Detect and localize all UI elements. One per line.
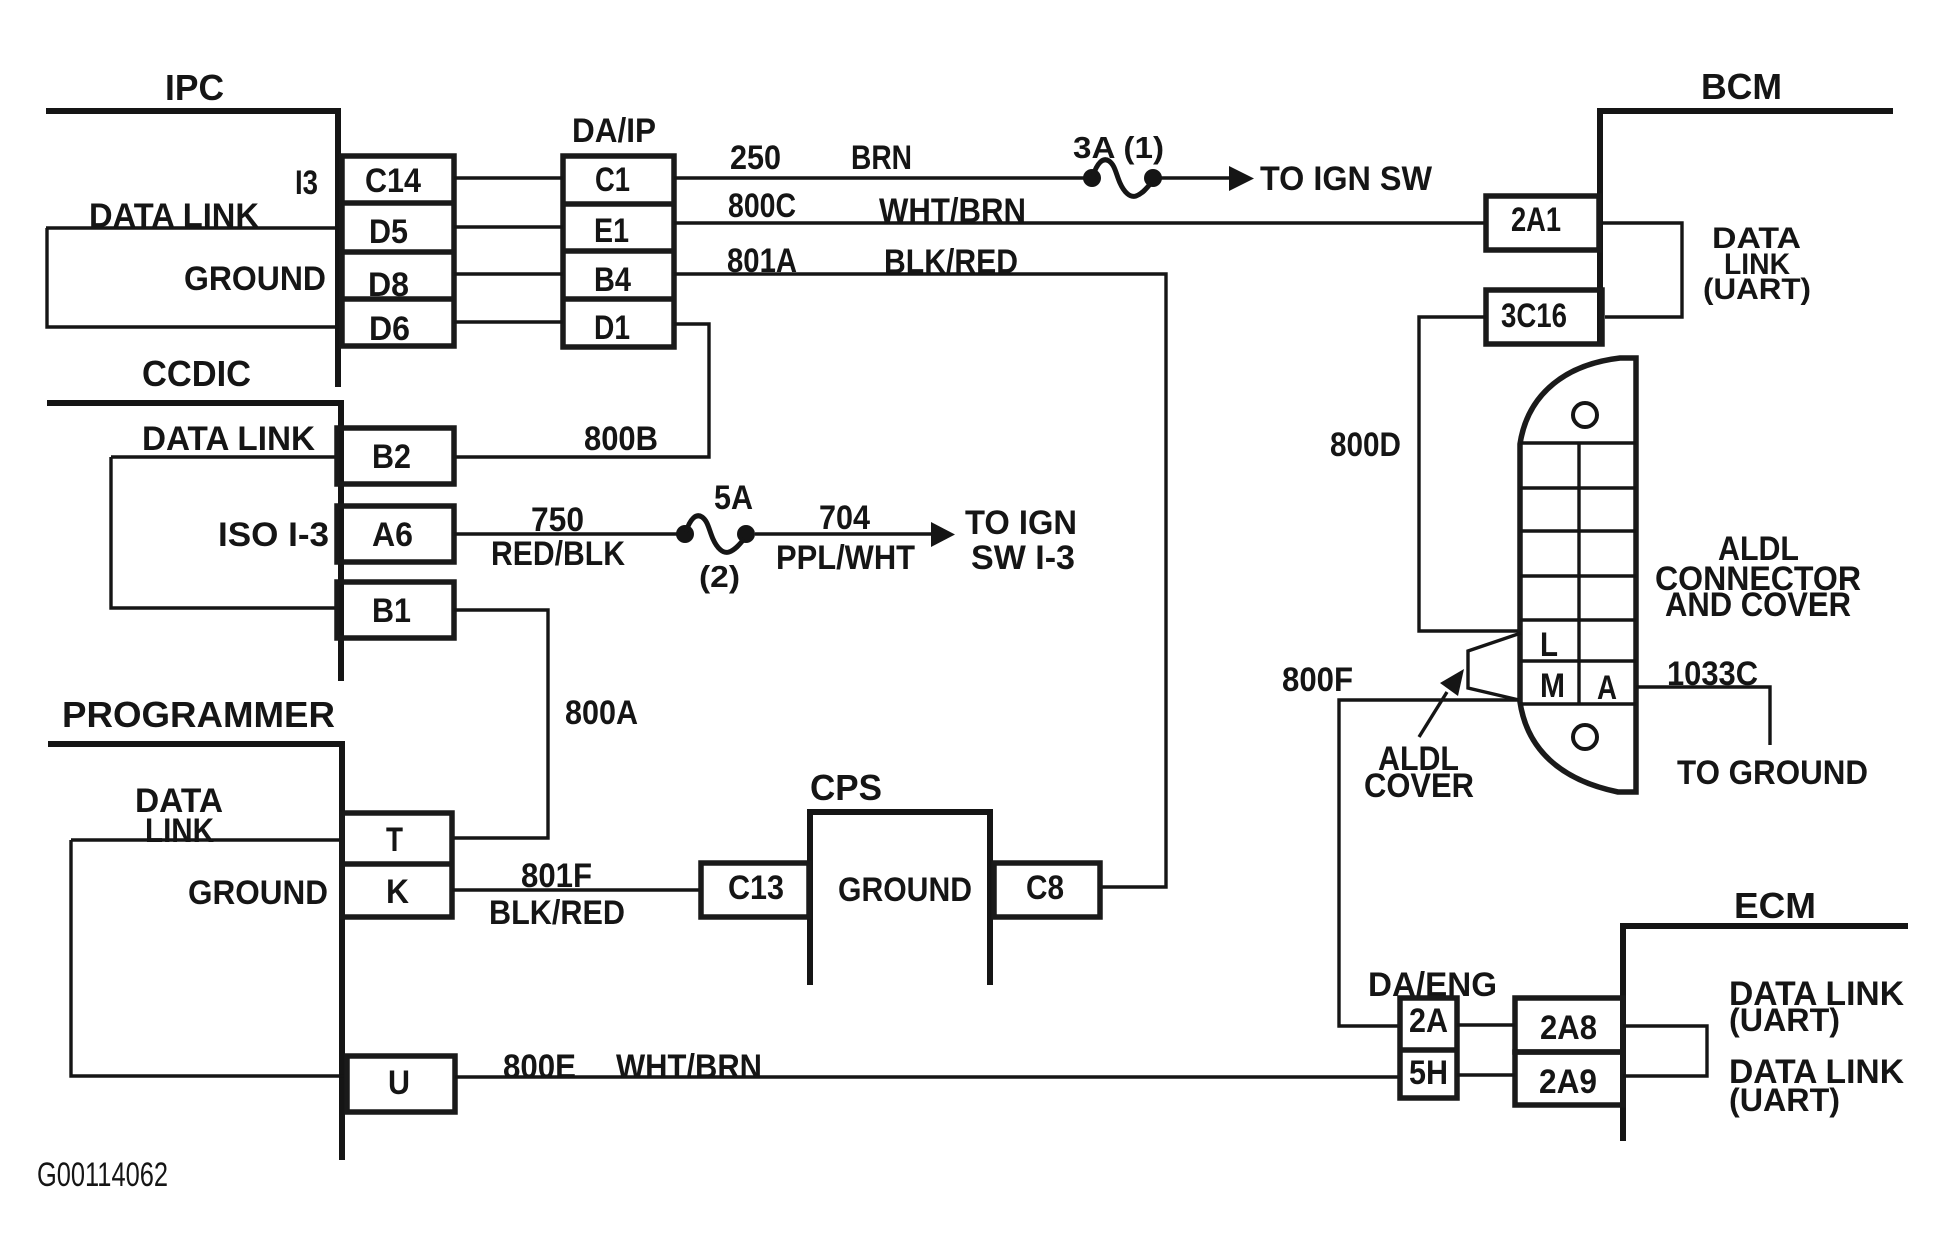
svg-text:801A: 801A bbox=[727, 242, 797, 280]
svg-text:800C: 800C bbox=[728, 187, 796, 225]
wire C14 to C1 bbox=[454, 176, 563, 179]
connector pin B2 bbox=[337, 428, 454, 484]
svg-text:250: 250 bbox=[730, 139, 781, 177]
svg-text:PPL/WHT: PPL/WHT bbox=[776, 539, 915, 577]
svg-text:C13: C13 bbox=[728, 869, 784, 907]
svg-text:801F: 801F bbox=[521, 857, 592, 895]
wire 800E WHT/BRN: U to 5H bbox=[455, 1075, 1400, 1078]
svg-text:5A: 5A bbox=[714, 479, 753, 517]
svg-text:DA/IP: DA/IP bbox=[572, 112, 656, 150]
wire ECM data-link bracket bbox=[1623, 1026, 1707, 1076]
label ALDL COVER with arrow bbox=[1419, 692, 1447, 737]
svg-text:(UART): (UART) bbox=[1729, 1002, 1840, 1038]
connector pins T K bbox=[342, 813, 452, 917]
svg-text:COVER: COVER bbox=[1364, 767, 1474, 805]
wire 2A to 2A8 bbox=[1457, 1023, 1515, 1026]
svg-text:D6: D6 bbox=[369, 310, 410, 348]
svg-text:TO IGN: TO IGN bbox=[965, 504, 1077, 542]
arrow TO IGN SW I-3 bbox=[931, 522, 955, 547]
svg-text:LINK: LINK bbox=[145, 812, 214, 850]
svg-text:C14: C14 bbox=[365, 162, 421, 200]
connector pin 3C16 bbox=[1486, 290, 1602, 344]
connector pin U bbox=[347, 1056, 455, 1112]
connector pin A6 bbox=[337, 506, 454, 562]
svg-text:704: 704 bbox=[819, 499, 870, 537]
module CPS frame bbox=[810, 812, 990, 985]
wire 250 BRN: C1 to fuse bbox=[674, 176, 1085, 179]
svg-text:3A (1): 3A (1) bbox=[1073, 130, 1164, 165]
connector DA/IP pins C1 E1 B4 D1 bbox=[563, 156, 674, 347]
svg-text:800A: 800A bbox=[565, 694, 638, 732]
ALDL mounting hole top bbox=[1573, 403, 1597, 427]
wire D5 to E1 bbox=[454, 225, 563, 228]
svg-text:CPS: CPS bbox=[810, 767, 882, 808]
svg-text:M: M bbox=[1540, 667, 1565, 705]
connector DA/ENG pins 2A 5H bbox=[1400, 998, 1457, 1098]
module IPC frame bbox=[46, 108, 338, 387]
connector pin 2A1 bbox=[1486, 196, 1599, 250]
wire 800D: 3C16 to ALDL L pin bbox=[1419, 317, 1519, 631]
svg-text:ECM: ECM bbox=[1734, 885, 1816, 926]
svg-text:IPC: IPC bbox=[165, 67, 224, 108]
wire D1 down to B2 (800B) bbox=[454, 324, 709, 457]
module PROGRAMMER frame bbox=[48, 741, 342, 1160]
svg-text:2A8: 2A8 bbox=[1540, 1009, 1597, 1047]
svg-text:PROGRAMMER: PROGRAMMER bbox=[62, 694, 335, 735]
svg-text:T: T bbox=[386, 821, 403, 859]
svg-text:AND COVER: AND COVER bbox=[1665, 586, 1851, 624]
svg-text:3C16: 3C16 bbox=[1501, 297, 1567, 335]
svg-text:B4: B4 bbox=[594, 261, 631, 299]
wire D8 to B4 bbox=[454, 272, 563, 275]
svg-text:TO IGN SW: TO IGN SW bbox=[1260, 160, 1433, 198]
svg-text:I3: I3 bbox=[295, 164, 318, 202]
svg-text:SW I-3: SW I-3 bbox=[971, 539, 1075, 577]
svg-text:K: K bbox=[386, 873, 409, 911]
svg-text:(UART): (UART) bbox=[1703, 273, 1811, 306]
svg-text:WHT/BRN: WHT/BRN bbox=[879, 192, 1026, 230]
module BCM frame bbox=[1598, 108, 1893, 344]
ALDL mounting hole bottom bbox=[1573, 725, 1597, 749]
svg-text:B1: B1 bbox=[372, 592, 411, 630]
svg-text:750: 750 bbox=[531, 501, 584, 539]
svg-text:D1: D1 bbox=[594, 309, 630, 347]
svg-text:WHT/BRN: WHT/BRN bbox=[616, 1048, 762, 1086]
wire BCM data-link bracket bbox=[1602, 223, 1682, 317]
svg-text:GROUND: GROUND bbox=[188, 874, 328, 912]
svg-text:L: L bbox=[1540, 626, 1558, 664]
svg-text:A: A bbox=[1597, 669, 1617, 707]
svg-text:1033C: 1033C bbox=[1667, 655, 1758, 693]
connector pin C13 bbox=[701, 863, 809, 917]
svg-text:(UART): (UART) bbox=[1729, 1082, 1840, 1118]
connector ALDL body bbox=[1520, 358, 1636, 792]
wire programmer data-link bracket to U bbox=[71, 840, 347, 1076]
svg-text:RED/BLK: RED/BLK bbox=[491, 535, 625, 573]
svg-text:2A9: 2A9 bbox=[1539, 1063, 1597, 1101]
wire 5H to 2A9 bbox=[1457, 1073, 1515, 1076]
svg-text:(2): (2) bbox=[699, 559, 740, 594]
wire IPC data-link bracket bbox=[46, 228, 342, 327]
wire 801A BLK/RED: B4 down to C8 bbox=[674, 274, 1166, 887]
svg-text:ISO I-3: ISO I-3 bbox=[218, 516, 329, 554]
svg-text:U: U bbox=[388, 1064, 410, 1102]
svg-text:5H: 5H bbox=[1409, 1054, 1448, 1092]
fuse 5A (2) bbox=[676, 516, 755, 553]
arrow to cover bbox=[1440, 669, 1464, 696]
wire B1 to T (800A) bbox=[452, 610, 548, 838]
svg-text:2A1: 2A1 bbox=[1511, 201, 1561, 239]
ALDL cover flap bbox=[1468, 633, 1521, 700]
svg-text:800B: 800B bbox=[584, 420, 658, 458]
svg-text:800F: 800F bbox=[1282, 661, 1353, 699]
svg-text:C8: C8 bbox=[1026, 869, 1064, 907]
svg-text:GROUND: GROUND bbox=[184, 260, 326, 298]
wire CCDIC bracket B2 to B1 bbox=[111, 457, 337, 608]
wire 1033C: A pin to ground bbox=[1636, 687, 1770, 745]
wire 800C WHT/BRN: E1 to 2A1 bbox=[674, 221, 1486, 224]
svg-text:E1: E1 bbox=[594, 212, 629, 250]
wire 800F: ALDL M pin down to 2A bbox=[1339, 700, 1519, 1026]
svg-text:800E: 800E bbox=[503, 1048, 576, 1086]
connector pin 2A9 bbox=[1515, 1052, 1623, 1105]
svg-text:BLK/RED: BLK/RED bbox=[884, 243, 1018, 281]
svg-text:A6: A6 bbox=[372, 516, 413, 554]
svg-text:G00114062: G00114062 bbox=[37, 1156, 168, 1194]
wire D6 to D1 bbox=[454, 320, 563, 323]
svg-text:2A: 2A bbox=[1409, 1002, 1448, 1040]
svg-text:BCM: BCM bbox=[1701, 66, 1782, 107]
svg-text:C1: C1 bbox=[595, 161, 630, 199]
svg-text:CCDIC: CCDIC bbox=[142, 353, 251, 394]
svg-text:DATA LINK: DATA LINK bbox=[142, 420, 315, 458]
connector pin 2A8 bbox=[1515, 998, 1623, 1052]
wire 801F BLK/RED: K to C13 bbox=[452, 888, 701, 891]
connector pin C8 bbox=[994, 863, 1100, 917]
connector ALDL grid bbox=[1520, 443, 1636, 704]
svg-text:BRN: BRN bbox=[851, 139, 912, 177]
svg-text:BLK/RED: BLK/RED bbox=[489, 894, 625, 932]
svg-text:D8: D8 bbox=[368, 266, 409, 304]
wire fuse to arrow 704 bbox=[755, 532, 932, 535]
svg-text:800D: 800D bbox=[1330, 426, 1401, 464]
wire fuse to arrow bbox=[1161, 176, 1230, 179]
module ECM frame bbox=[1623, 923, 1908, 1141]
module CCDIC frame bbox=[47, 400, 341, 681]
arrow TO IGN SW bbox=[1229, 166, 1254, 191]
connector pin B1 bbox=[337, 582, 454, 638]
svg-text:D5: D5 bbox=[369, 213, 408, 251]
svg-text:GROUND: GROUND bbox=[838, 871, 972, 909]
wire 750 RED/BLK: A6 to fuse bbox=[454, 532, 677, 535]
fuse 3A (1) bbox=[1083, 160, 1162, 197]
svg-text:B2: B2 bbox=[372, 438, 411, 476]
connector IPC pins C14 D5 D8 D6 bbox=[342, 156, 454, 346]
svg-text:TO GROUND: TO GROUND bbox=[1677, 754, 1868, 792]
